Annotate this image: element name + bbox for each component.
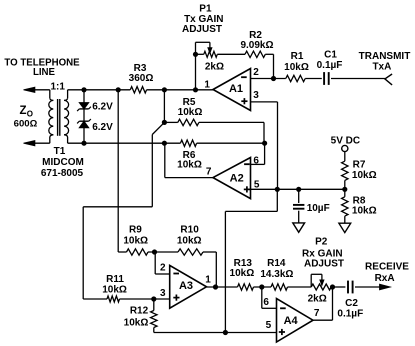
svg-text:1:1: 1:1 <box>50 82 65 93</box>
svg-text:C1: C1 <box>324 50 337 61</box>
svg-text:10kΩ: 10kΩ <box>230 268 255 279</box>
svg-text:1: 1 <box>205 275 211 286</box>
svg-text:6.2V: 6.2V <box>92 122 113 133</box>
svg-text:14.3kΩ: 14.3kΩ <box>260 269 293 280</box>
svg-text:O: O <box>27 109 33 118</box>
svg-text:7: 7 <box>314 308 320 319</box>
svg-text:3: 3 <box>160 288 166 299</box>
svg-text:10kΩ: 10kΩ <box>177 159 202 170</box>
svg-text:5: 5 <box>254 179 260 190</box>
svg-text:RECEIVE: RECEIVE <box>365 262 409 273</box>
svg-text:10µF: 10µF <box>307 203 330 214</box>
svg-text:R10: R10 <box>180 225 199 236</box>
svg-text:10kΩ: 10kΩ <box>124 318 149 329</box>
svg-text:10kΩ: 10kΩ <box>102 284 127 295</box>
svg-text:5: 5 <box>266 320 272 331</box>
svg-text:ADJUST: ADJUST <box>182 24 222 35</box>
svg-text:A1: A1 <box>229 83 243 95</box>
svg-text:A2: A2 <box>230 172 244 184</box>
svg-text:ADJUST: ADJUST <box>304 259 344 270</box>
svg-text:2: 2 <box>253 67 259 78</box>
svg-text:A4: A4 <box>284 315 299 327</box>
svg-text:0.1µF: 0.1µF <box>317 60 343 71</box>
svg-text:RxA: RxA <box>375 273 395 284</box>
svg-text:671-8005: 671-8005 <box>41 168 84 179</box>
svg-text:360Ω: 360Ω <box>129 73 154 84</box>
svg-text:2kΩ: 2kΩ <box>308 294 327 305</box>
svg-text:2: 2 <box>160 263 166 274</box>
svg-text:TRANSMIT: TRANSMIT <box>359 51 411 62</box>
svg-text:3: 3 <box>253 90 259 101</box>
svg-text:10kΩ: 10kΩ <box>178 107 203 118</box>
svg-text:R9: R9 <box>129 225 142 236</box>
svg-text:10kΩ: 10kΩ <box>123 235 148 246</box>
svg-text:TxA: TxA <box>372 61 391 72</box>
svg-text:R12: R12 <box>130 306 149 317</box>
svg-text:LINE: LINE <box>33 67 56 78</box>
svg-text:9.09kΩ: 9.09kΩ <box>240 40 273 51</box>
svg-text:P2: P2 <box>315 237 328 248</box>
svg-text:R8: R8 <box>353 195 366 206</box>
svg-text:7: 7 <box>206 167 212 178</box>
svg-text:10kΩ: 10kΩ <box>177 235 202 246</box>
svg-text:R1: R1 <box>291 51 304 62</box>
svg-text:T1: T1 <box>54 146 66 157</box>
svg-text:6.2V: 6.2V <box>92 102 113 113</box>
svg-text:10kΩ: 10kΩ <box>352 206 377 217</box>
svg-text:A3: A3 <box>179 280 193 292</box>
svg-text:C2: C2 <box>345 298 358 309</box>
svg-text:MIDCOM: MIDCOM <box>42 157 84 168</box>
svg-text:1: 1 <box>204 80 210 91</box>
svg-text:600Ω: 600Ω <box>14 119 38 130</box>
svg-text:5V DC: 5V DC <box>331 135 360 146</box>
svg-text:Z: Z <box>20 105 27 117</box>
svg-text:2kΩ: 2kΩ <box>205 62 224 73</box>
svg-text:0.1µF: 0.1µF <box>337 308 363 319</box>
svg-text:P1: P1 <box>199 3 212 14</box>
svg-text:6: 6 <box>263 297 269 308</box>
svg-text:10kΩ: 10kΩ <box>284 62 309 73</box>
svg-text:6: 6 <box>253 156 259 167</box>
svg-text:R14: R14 <box>267 258 286 269</box>
svg-text:10kΩ: 10kΩ <box>352 170 377 181</box>
svg-text:Tx GAIN: Tx GAIN <box>184 14 223 25</box>
